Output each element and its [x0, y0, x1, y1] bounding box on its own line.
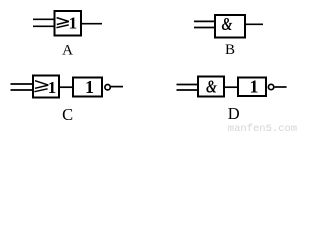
svg-text:B: B: [225, 42, 235, 58]
svg-text:1: 1: [48, 78, 57, 97]
AND gate D1 box: [198, 77, 224, 97]
value label & of gate B: [222, 16, 233, 35]
inverter bubble C: [105, 85, 110, 90]
wire B input 1: [194, 20, 215, 22]
svg-text:C: C: [62, 105, 73, 124]
wire A input 1: [33, 18, 55, 20]
value label ≥1 of gate C1: [34, 78, 56, 97]
inverter bubble D: [268, 84, 273, 89]
wire A input 2: [33, 25, 55, 27]
OR gate A box: [55, 11, 82, 36]
wire C input 2: [11, 89, 34, 91]
value label & of gate D1: [206, 78, 217, 97]
svg-text:1: 1: [250, 77, 259, 97]
wire C connector: [59, 86, 74, 88]
wire D output: [275, 86, 287, 88]
value label ≥1 of gate A: [56, 14, 77, 33]
wire D connector: [224, 86, 239, 88]
wire B output: [245, 23, 263, 25]
svg-text:&: &: [206, 78, 217, 97]
wire C input 1: [11, 83, 34, 85]
wire A output: [82, 23, 102, 25]
OR gate C1 box: [33, 76, 59, 98]
svg-text:D: D: [228, 104, 240, 123]
wire B input 2: [194, 27, 215, 29]
wire C output: [111, 86, 123, 88]
NOT gate C2 box: [73, 78, 102, 97]
svg-text:1: 1: [69, 14, 78, 33]
wire D input 2: [177, 89, 199, 91]
svg-text:A: A: [62, 42, 73, 58]
NOT gate D2 box: [238, 78, 266, 97]
AND gate B box: [215, 15, 245, 38]
svg-text:manfen5.com: manfen5.com: [228, 123, 297, 132]
wire D input 1: [177, 84, 199, 86]
svg-text:&: &: [222, 16, 233, 35]
svg-text:1: 1: [85, 77, 94, 97]
